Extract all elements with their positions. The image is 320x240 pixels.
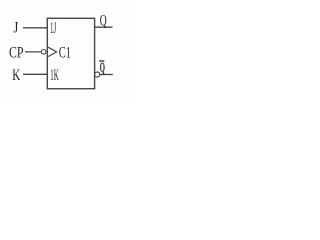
JK flip-flop U1 body	[47, 18, 94, 88]
svg-text:C1: C1	[59, 44, 71, 61]
svg-text:Q: Q	[100, 13, 107, 30]
svg-text:Q: Q	[100, 60, 105, 76]
svg-text:K: K	[12, 67, 21, 84]
wire CP input	[25, 51, 41, 53]
svg-text:1J: 1J	[50, 20, 56, 37]
svg-text:CP: CP	[9, 44, 24, 61]
polarity bubble on CP input	[41, 50, 46, 55]
inversion bubble on Q-bar output	[95, 72, 100, 77]
wire Q output	[95, 26, 113, 28]
wire Q-bar output	[100, 74, 113, 76]
svg-text:J: J	[13, 20, 18, 37]
svg-text:1K: 1K	[50, 67, 59, 84]
wire J input	[23, 27, 47, 29]
dynamic-input triangle on C1	[48, 47, 57, 56]
wire K input	[23, 73, 47, 75]
overbar of Q-bar	[99, 60, 104, 62]
